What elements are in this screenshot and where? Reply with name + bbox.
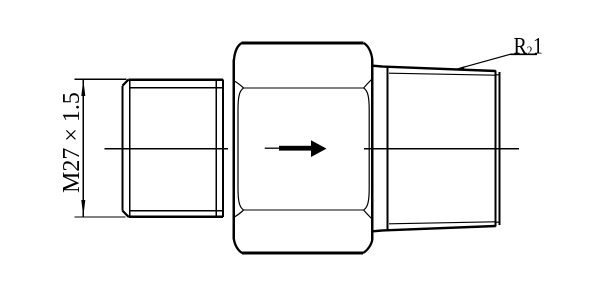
svg-text:M27 × 1.5: M27 × 1.5 [59,92,85,193]
svg-text:R21: R21 [513,33,542,59]
